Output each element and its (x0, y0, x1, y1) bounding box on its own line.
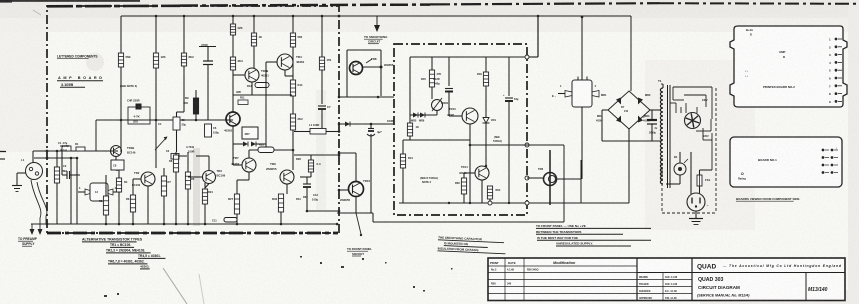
capacitor C7 (318, 105, 331, 109)
node rail junction j (236, 223, 239, 226)
wire preamp feed b (76, 158, 78, 224)
ground (mains earth) (689, 219, 703, 225)
resistor R18 (103, 196, 108, 215)
resistor R8 (319, 57, 331, 70)
node rail junction g (175, 223, 178, 226)
node rail junction f (163, 223, 166, 226)
wire R17 link (300, 176, 311, 178)
resistor R23 (202, 189, 207, 204)
sheet top border (0, 1, 859, 6)
wire R18b bottom lead (118, 192, 120, 224)
wire TR10 emitter lead (355, 197, 357, 214)
wire TR4 base riser (265, 62, 267, 144)
wire R46 top lead (485, 57, 487, 72)
wire input top wire (33, 150, 118, 152)
wire TR7 collector lead (248, 150, 250, 158)
wire TR15 rail (549, 150, 551, 205)
wire reservoir box left (601, 110, 603, 141)
ground (input) (12, 186, 22, 192)
title block drawing title (697, 277, 750, 298)
diode MR6 (419, 113, 425, 123)
wire TR13 base link (449, 115, 462, 117)
wire R23 bottom lead (204, 204, 206, 224)
sheet corner mark (0, 0, 41, 15)
wire ground riser (16, 173, 18, 185)
label mains voltages (702, 99, 709, 138)
arrow preamp b (38, 229, 43, 235)
resistor R9 (193, 98, 198, 114)
capacitor C3 (201, 43, 213, 65)
resistor R46 (477, 72, 489, 86)
node top rail junction a (155, 15, 158, 18)
transistor TR3b (203, 169, 226, 184)
wire R45 bottom lead (431, 87, 433, 99)
connector board no.2 (top right) (730, 26, 847, 107)
wire R12 bottom lead (292, 130, 294, 170)
wire lamp top lead (679, 152, 681, 163)
note alternative transistor types (82, 238, 165, 269)
wire bias mid bus (403, 139, 470, 141)
node board chain junction 134 (338, 130, 341, 133)
power supply board outline (chain) (394, 44, 527, 215)
wire C28 bottom lead (448, 92, 450, 117)
wire R1a top lead (56, 151, 58, 167)
transformer T1 core (668, 85, 671, 188)
bridge rectifier MR1-MR4 (596, 91, 651, 129)
wire C3 bottom lead (207, 65, 209, 121)
wire R9 bottom lead (195, 114, 197, 120)
wire R17 bottom lead (310, 172, 312, 177)
wire 0V rail right link a (337, 212, 373, 214)
resistor R7 (290, 33, 302, 47)
node psu pin 2 (525, 143, 529, 147)
resistor R21 (173, 155, 178, 172)
wire TR7 emitter lead (248, 172, 250, 180)
node C15 junction (370, 123, 373, 126)
wire pot feedback elbow (96, 120, 128, 151)
wire R18b top lead (118, 170, 120, 178)
wire R21 top lead (175, 152, 177, 155)
transistor TR2 (134, 171, 155, 186)
wire mid rail (121, 119, 233, 121)
wire R48 bottom lead (489, 199, 491, 203)
capacitor C15 (367, 129, 382, 137)
resistor R20 (161, 176, 166, 196)
wire TR12 lead (436, 111, 438, 116)
node rail junction f2 (105, 223, 108, 226)
wire psu feed link (527, 56, 538, 58)
wire psu left drop (409, 57, 411, 115)
wire RL1 left stub (558, 93, 565, 95)
transistor TR13 (447, 107, 478, 124)
wire R10 top lead (183, 16, 185, 53)
wire bias bus (410, 114, 437, 116)
wire R22 top lead (187, 152, 189, 172)
capacitor C2 (63, 164, 70, 179)
wire TR13 emitter lead (469, 124, 471, 203)
wire RL1 bottom lead (581, 107, 583, 179)
label boards viewed (736, 197, 800, 201)
wire TR8 loop left (346, 50, 348, 97)
wire TR3 emitter lead (205, 184, 209, 189)
wire plug live lead (690, 152, 692, 194)
resistor R6 (251, 33, 262, 46)
label R9 (183, 96, 189, 105)
wire C2 left lead (62, 174, 67, 176)
wire lamp bottom link (666, 183, 680, 185)
fuse FS1 (697, 175, 711, 186)
wire C13 top lead (306, 177, 308, 184)
resistor R19 (130, 195, 135, 212)
node rail junction h (187, 223, 190, 226)
wire bridge feed (630, 16, 632, 91)
wire TR7 collector link (249, 149, 293, 151)
label to smoothing circuit (364, 35, 388, 39)
wire R3 top lead (155, 16, 157, 53)
wire psu output riser (580, 160, 582, 203)
wire C3 top lead (207, 47, 209, 62)
wire R20 top lead (163, 168, 165, 176)
resistor R12 (290, 114, 303, 130)
resistor R1 (75, 142, 85, 151)
wire L1 out lead (326, 131, 339, 133)
wire TR9 emitter lead (286, 184, 288, 194)
capacitor C30 reservoir (643, 115, 658, 135)
wire R46 bottom lead (485, 86, 487, 117)
wire TR3 top link (196, 155, 209, 157)
node top rail junction b (183, 15, 186, 18)
preamp wire right (32, 182, 47, 229)
mains plug P1 (687, 193, 709, 211)
resistor R18b (116, 178, 121, 192)
capacitor C11 (212, 218, 237, 223)
wire TR3 emitter lead (251, 82, 253, 95)
node board chain junction 97 (338, 96, 341, 99)
node board chain junction 153 (338, 152, 341, 155)
wire feedback line (294, 131, 310, 133)
node board chain junction 16 (338, 15, 341, 18)
node top rail junction g (338, 15, 341, 18)
wire R16 bottom lead (236, 214, 238, 224)
node psu rail junction c (485, 165, 487, 167)
specks (104, 256, 453, 297)
wire R47 top lead (463, 173, 465, 178)
node psu pin 1 (525, 55, 529, 59)
wire secondary top link (661, 83, 663, 85)
wire TR8 collector stub (363, 66, 382, 68)
wire lamp bottom lead (679, 175, 681, 184)
wire TR14 emitter lead (481, 180, 483, 203)
wire diode chain lead b (233, 143, 243, 145)
mains unit outline (dashed) (662, 88, 716, 213)
wire C8 bottom lead (116, 170, 118, 171)
node rail junction d (118, 223, 121, 226)
wire bias line (339, 123, 394, 125)
capacitor C8 (111, 160, 124, 170)
wire TR8 loop top (347, 49, 381, 51)
wire reservoir box bottom (602, 140, 662, 142)
voltage selector S1 (685, 113, 701, 129)
wire psu feed drop (537, 17, 539, 57)
capacitor C5 (173, 117, 186, 130)
diode MR8 (243, 142, 248, 147)
transistor TR15 (538, 167, 557, 186)
resistor R43 (407, 123, 419, 136)
wire R7 top lead (292, 16, 294, 33)
wire 0V rail right link b (372, 213, 374, 222)
wire fuse bottom lead (699, 186, 701, 194)
wire TR2 base riser (132, 179, 134, 190)
amplifier board outline (chain) (47, 6, 339, 233)
transformer T1 secondary winding (658, 79, 663, 184)
connector board no.1 (bottom right) (730, 137, 842, 187)
connector board no.2 pins (829, 38, 842, 104)
wire plug earth lead (695, 211, 697, 218)
node input rail junction (56, 150, 59, 153)
wire C3 feed (199, 46, 216, 48)
label printed board (57, 76, 103, 87)
resistor R10 (181, 53, 194, 66)
note front panel wiring (536, 224, 651, 246)
wire CN1 left lead (78, 191, 85, 193)
node psu rail junction d (508, 202, 510, 204)
wire R18 top lead (105, 175, 107, 196)
wire C13 bottom lead (306, 187, 308, 211)
resistor R4 (230, 24, 242, 35)
resistor R23h (258, 143, 274, 153)
wire diode chain lead a (232, 126, 234, 144)
label to preamp 2 (22, 242, 35, 246)
wire TR4 base lead (266, 61, 277, 63)
wire TR3 base lead (188, 176, 203, 178)
wire TR1 bottom lead (115, 157, 117, 161)
wire R43 top lead (409, 115, 411, 123)
wire R2 bottom lead (120, 67, 122, 152)
wire psu 0V rail (399, 202, 629, 204)
wire +67V rail (121, 15, 631, 17)
wire R5 bottom lead (232, 70, 234, 112)
inductor L1 (309, 123, 326, 134)
wire C28 top lead (448, 57, 450, 86)
wire ZD1 bottom lead (485, 123, 487, 166)
transistor TR1 (111, 146, 136, 157)
label see table note (420, 177, 438, 184)
node psu rail junction a (448, 202, 450, 204)
label to smoothing circuit 2 (368, 40, 380, 44)
node board chain junction 155 (338, 154, 341, 157)
resistor R1a (54, 167, 67, 183)
label to preamp (18, 237, 38, 241)
title block QUAD header (697, 264, 842, 271)
wire TR10 collector riser (355, 153, 357, 182)
resistor R13h (247, 83, 269, 89)
transistor TR4 (277, 54, 305, 70)
wire R44 top lead (402, 140, 404, 154)
wire C29 top lead (508, 57, 510, 96)
resistor R2 (118, 53, 130, 67)
wire R43 bottom lead (409, 136, 411, 140)
wire R10 bottom lead (183, 66, 185, 112)
label to front panel (347, 247, 372, 251)
wire pin3 link (527, 177, 543, 179)
transistor TR9 (266, 162, 294, 184)
resistor R48 (487, 186, 500, 199)
wire C5 top lead (176, 112, 178, 117)
wire R6 bottom lead (253, 46, 255, 68)
wire C30 bottom lead (651, 124, 653, 141)
left edge stubs (0, 152, 6, 160)
wire collector link (557, 178, 581, 180)
node TR8 emitter junction (377, 96, 380, 99)
wire TR7 base riser (232, 144, 234, 165)
preamp wire left (31, 180, 41, 229)
node psu pin 4 (525, 201, 529, 205)
wire C13 out link (307, 210, 338, 212)
wire R19 bottom lead (132, 212, 134, 224)
wire bridge right lead (650, 109, 661, 111)
resistor R16 (228, 194, 240, 214)
wire TR3 base lead (233, 74, 245, 76)
wire R2 top lead (120, 16, 122, 53)
node top rail junction c (232, 15, 235, 18)
wire C5 bottom lead (176, 130, 178, 152)
wire TR7 base lead (233, 164, 242, 166)
wire C15 top lead (370, 124, 372, 129)
node board chain junction 124 (338, 123, 341, 126)
connector board no.1 pins (822, 149, 838, 174)
wire R18 bottom lead (105, 215, 107, 224)
transistor TR7 (231, 156, 256, 172)
wire R8 bottom lead (321, 70, 323, 104)
resistor R5 (230, 57, 243, 70)
node chain crossing c (46, 223, 49, 226)
capacitor C13 (303, 184, 318, 202)
wire R21 bottom lead (175, 172, 177, 224)
wire TR4 emitter link (285, 75, 293, 77)
wire bias bus left (233, 94, 292, 96)
TR8 stub dot (380, 66, 383, 69)
node chain crossing b (46, 157, 49, 160)
resistor R3 (153, 53, 165, 68)
transistor TR14 (459, 165, 489, 180)
capacitor C3a body (205, 124, 220, 137)
wire CN1 right lead (113, 191, 121, 193)
transformer primary taps (670, 87, 712, 170)
node mid rail junction b (155, 119, 158, 122)
node top rail junction d (253, 15, 256, 18)
title block sign cells (639, 276, 678, 300)
arrow preamp a (30, 229, 35, 235)
arrow to smoothing circuit (374, 16, 380, 32)
resistor R11 (238, 96, 248, 105)
node board chain junction 190 (338, 189, 341, 192)
wire fuse top lead (699, 170, 701, 175)
wire TR4 emitter lead (284, 70, 286, 76)
resistor R7b (290, 80, 303, 96)
relay RL1 (552, 77, 599, 108)
node mid rail junction c (195, 119, 198, 122)
label see table 2 (493, 136, 502, 143)
node preamp junction b (76, 157, 79, 160)
connector CN1 (79, 183, 117, 201)
node top rail junction h (537, 15, 540, 18)
preset R9 box (127, 99, 150, 125)
wire R6 top lead (253, 16, 255, 33)
TR8 pointer (366, 59, 394, 67)
output contact (356, 213, 362, 236)
resistor R17 (308, 160, 321, 172)
diode MR5 (411, 113, 418, 123)
wire R14 bottom lead (280, 212, 282, 224)
wire TR10 base lead (339, 189, 349, 191)
wire C6 right lead (179, 155, 187, 157)
wire psu top rail (410, 56, 527, 58)
node board chain junction 211 (338, 210, 341, 213)
wire C2 right lead (70, 174, 81, 176)
label lettered components (57, 55, 98, 59)
wire R45 top lead (431, 57, 433, 70)
node rail junction k (280, 223, 283, 226)
label 4K7 pair (186, 145, 195, 154)
capacitor C1 (58, 141, 71, 151)
node psu pin 5 (488, 201, 492, 205)
wire C30 top lead (651, 110, 653, 120)
wire R23 top lead (204, 183, 206, 189)
wire R17 top lead (310, 155, 312, 160)
node top rail junction e (292, 15, 295, 18)
wire TR8 loop right (380, 50, 382, 96)
wire R47 bottom lead (463, 194, 465, 203)
wire R22 bottom lead (187, 189, 189, 224)
preset arrow (155, 137, 168, 151)
wire R3 bottom lead (155, 68, 157, 120)
wire preamp feed a (70, 158, 72, 224)
input socket SKT1 (21, 158, 43, 180)
amplifier board outline bottom emphasis (47, 232, 338, 235)
resistor R44 (400, 154, 413, 168)
wire R16 top lead (236, 180, 238, 194)
wire C5 top link (177, 111, 185, 113)
wire C8 to R18b (118, 169, 120, 171)
node top rail junction f (321, 15, 324, 18)
label to front panel 2 (352, 252, 364, 256)
node rail junction i (204, 223, 207, 226)
resistor R22 (185, 172, 190, 189)
title block table (488, 258, 845, 301)
wire driver rail (339, 96, 394, 98)
diode MR10 (345, 122, 350, 127)
wire R1a bottom lead (56, 183, 58, 224)
wire socket shield lead (17, 172, 26, 174)
node psu rail junction b (469, 202, 471, 204)
capacitor C29 (503, 93, 519, 101)
wire R9 top lead (195, 90, 197, 98)
node rail junction l (306, 210, 309, 213)
preset R26 box (242, 127, 258, 139)
note heatsink mounting (438, 235, 507, 253)
wire diode chain lead c (256, 143, 266, 145)
wire sense riser (563, 145, 565, 222)
wire bridge bottom lead (628, 129, 630, 203)
wire R4 top lead (232, 16, 234, 24)
wire fuse feed (700, 169, 713, 171)
lamp B1 (674, 155, 688, 175)
node chain crossing a (46, 150, 49, 153)
wire TR10 collector link (339, 152, 356, 154)
node rail junction 224 (336, 223, 339, 226)
wire C7 bottom lead (321, 109, 323, 132)
transistor TR8 upper output (350, 57, 377, 75)
